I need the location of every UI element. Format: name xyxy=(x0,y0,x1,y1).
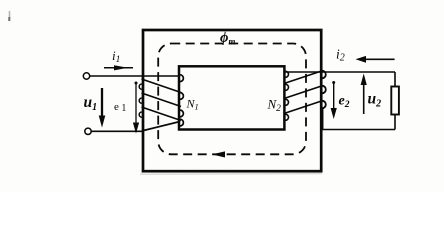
svg-text:u1: u1 xyxy=(84,94,98,113)
svg-text:N1: N1 xyxy=(186,97,199,112)
svg-text:u2: u2 xyxy=(368,91,382,110)
svg-text:i1: i1 xyxy=(112,48,120,65)
svg-text:e1: e1 xyxy=(114,101,126,114)
svg-text:ϕm: ϕm xyxy=(220,30,235,47)
svg-text:e2: e2 xyxy=(339,94,350,111)
svg-text:N2: N2 xyxy=(267,97,282,115)
svg-text:i2: i2 xyxy=(336,47,345,64)
